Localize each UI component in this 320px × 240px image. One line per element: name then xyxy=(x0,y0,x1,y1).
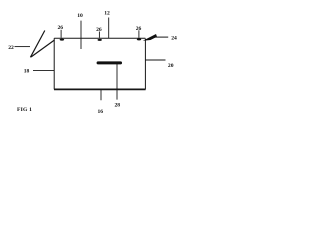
fastener 26 middle xyxy=(98,39,102,41)
svg-text:26: 26 xyxy=(58,25,64,31)
tick 26 right xyxy=(138,30,140,38)
svg-text:18: 18 xyxy=(24,69,30,75)
card 28 bar xyxy=(97,61,122,64)
svg-text:FIG 1: FIG 1 xyxy=(17,107,32,113)
svg-text:22: 22 xyxy=(8,45,14,51)
lead line 20 xyxy=(146,59,166,61)
svg-text:20: 20 xyxy=(168,63,174,69)
svg-text:10: 10 xyxy=(77,13,83,19)
svg-text:12: 12 xyxy=(104,10,110,16)
svg-text:24: 24 xyxy=(171,36,177,42)
tick 26 left xyxy=(60,30,62,38)
housing box 14 xyxy=(54,38,146,89)
tick 26 middle xyxy=(98,32,100,38)
latch arm 22 shallow line xyxy=(31,40,55,57)
tick 16 xyxy=(100,90,102,101)
lead line 22 xyxy=(15,46,31,48)
lead line 24 xyxy=(154,36,168,38)
lead line 28 xyxy=(116,64,118,100)
lead line 18 xyxy=(33,69,54,71)
svg-text:28: 28 xyxy=(115,102,121,108)
svg-text:16: 16 xyxy=(98,109,104,115)
fastener 26 right xyxy=(137,38,141,40)
lead line 12 xyxy=(108,18,110,39)
fastener 26 left xyxy=(60,39,64,41)
lead line 10 xyxy=(80,21,82,49)
arrowhead 24 xyxy=(143,34,157,41)
latch arm 22 steep line xyxy=(30,31,44,58)
